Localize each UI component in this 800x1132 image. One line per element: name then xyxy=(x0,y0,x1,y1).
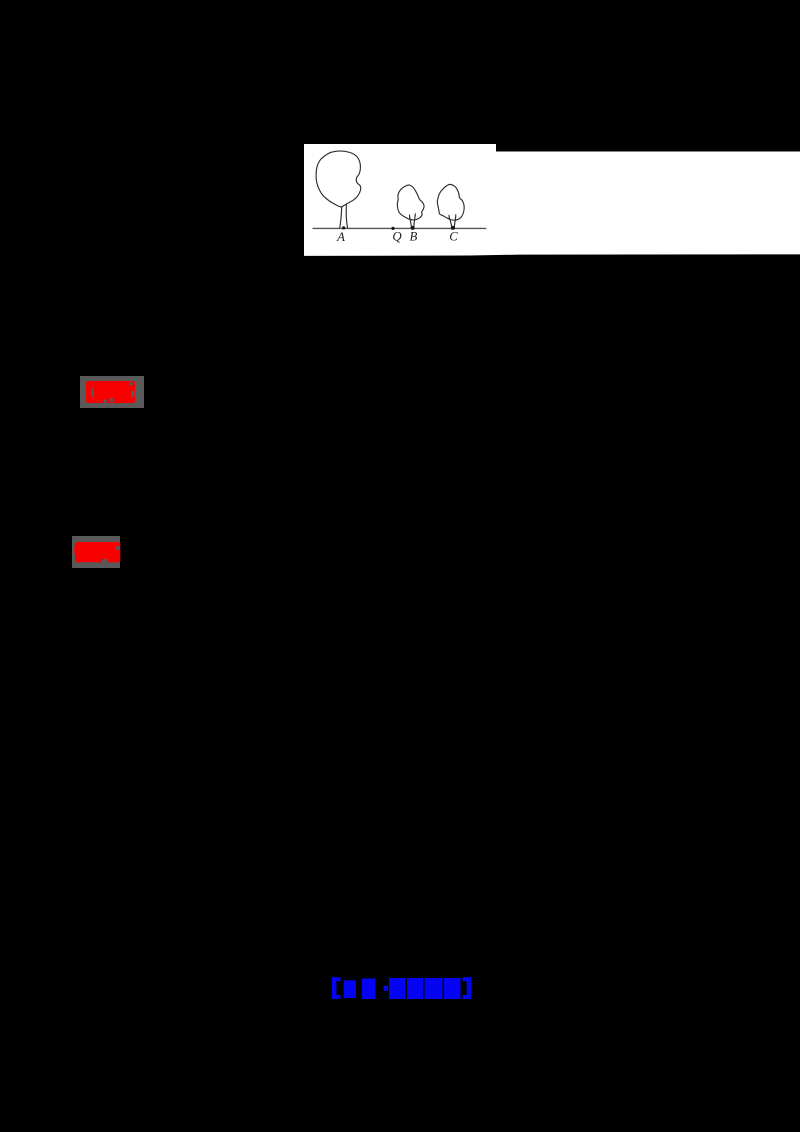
tree 2 trunk xyxy=(410,216,412,227)
svg-text:A: A xyxy=(336,230,345,244)
point dot Q xyxy=(391,227,394,230)
red label text blob 2 xyxy=(75,542,120,562)
red label text blob 1 xyxy=(86,381,135,403)
tree 3 trunk inner lines xyxy=(448,215,450,218)
point dot A xyxy=(342,226,345,229)
ground line xyxy=(313,227,487,229)
gray highlight block 2 xyxy=(72,536,120,568)
tree 2 crown (at B) xyxy=(397,185,424,220)
tree 3 crown (at C) xyxy=(437,184,464,220)
tree 1 crown (big, at A) xyxy=(316,151,361,207)
blue heading: char blob 3 xyxy=(407,978,423,999)
gray highlight block 1 xyxy=(80,376,144,408)
svg-text:B: B xyxy=(410,229,418,243)
blue heading: right bracket xyxy=(467,977,472,999)
tree 3 trunk xyxy=(449,217,452,228)
blue heading: middle dot xyxy=(384,986,389,991)
blue heading: letter B xyxy=(344,980,356,998)
blue heading: char blob 2 xyxy=(389,978,406,999)
tree 2 trunk inner lines xyxy=(409,215,411,218)
point dot C xyxy=(451,226,455,230)
blue heading: char blob 1 xyxy=(362,979,376,1000)
blue heading: char blob 5 xyxy=(444,978,461,999)
white slab (figure box + right strip) xyxy=(304,144,800,256)
point dot B xyxy=(411,226,415,230)
blue heading: char blob 4 xyxy=(425,978,443,999)
svg-text:C: C xyxy=(449,230,458,244)
blue heading: left bracket xyxy=(332,977,472,999)
svg-text:Q: Q xyxy=(392,230,401,244)
tree 1 trunk xyxy=(340,206,342,228)
